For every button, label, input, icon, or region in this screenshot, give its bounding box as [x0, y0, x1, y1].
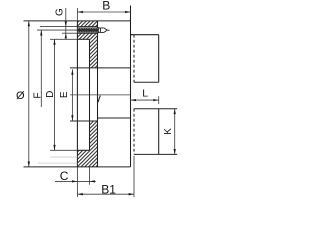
G upper extension — [40, 26, 77, 28]
chuck body bottom edge with K extension — [134, 153, 177, 155]
dim G line — [65, 8, 67, 39]
hidden spigot end upper (dashed) — [133, 35, 135, 83]
L right extension tick — [158, 96, 160, 104]
recess face and bore silhouette — [89, 39, 91, 150]
G lower extension — [62, 32, 77, 34]
flange front face with recess rim silhouette — [76, 21, 78, 167]
svg-text:F: F — [33, 92, 44, 98]
stud hole bottom edge — [77, 32, 97, 34]
hidden spigot end lower (dashed) — [133, 109, 135, 155]
F extension top (stud axis) — [37, 29, 77, 31]
svg-text:B1: B1 — [101, 183, 116, 197]
D extension lower — [50, 149, 77, 151]
dim K line — [174, 109, 176, 155]
hatch recess column upper — [90, 39, 98, 68]
chuck body right edge upper — [158, 35, 160, 83]
stud cone tip — [104, 28, 110, 33]
D extension upper — [50, 38, 77, 40]
dim D line — [54, 39, 56, 150]
stud hole top edge — [77, 26, 97, 28]
dim C line — [55, 180, 96, 182]
svg-text:E: E — [59, 91, 70, 98]
stud threaded shank — [77, 28, 98, 33]
hatch recess column lower — [90, 121, 98, 150]
dim B extension left — [76, 8, 78, 21]
faint bolt hole mirror line lower — [38, 162, 77, 164]
svg-text:B: B — [102, 0, 110, 13]
dim C extension right — [89, 167, 91, 185]
centerline break mark — [98, 96, 100, 103]
stud thread end — [97, 27, 99, 33]
centerline — [70, 94, 131, 96]
bore top edge line with E extension and chuck step top — [70, 67, 131, 69]
dim F line (top arrow, line fades mid-drawing as in source) — [40, 30, 42, 107]
chuck bore top line — [134, 81, 159, 83]
shared extension at front face bottom — [76, 167, 78, 197]
hatch band below stud hole — [77, 33, 97, 39]
flange back face — [97, 21, 99, 167]
stud point base — [100, 28, 104, 33]
dim L line — [131, 99, 159, 101]
dim B line — [77, 11, 130, 13]
svg-text:Ø: Ø — [16, 90, 25, 102]
faint bolt hole mirror line upper — [50, 156, 77, 158]
chuck bore bottom line with K extension — [134, 108, 177, 110]
svg-text:L: L — [142, 87, 148, 99]
svg-text:C: C — [60, 169, 69, 183]
dim dia line — [28, 21, 30, 167]
hatch rim bottom band — [77, 150, 97, 167]
svg-text:D: D — [45, 91, 56, 98]
svg-text:G: G — [54, 8, 65, 16]
chuck body right edge lower — [158, 109, 160, 155]
flange bottom OD edge with dia extension — [24, 166, 131, 168]
chuck front face — [130, 6, 132, 167]
chuck body top edge — [131, 34, 159, 36]
recess step upper — [77, 38, 89, 40]
stud thread texture lines — [78, 27, 99, 29]
recess step lower — [77, 149, 89, 151]
hatch rim top band — [77, 21, 97, 27]
flange top OD edge with dia extension — [24, 20, 131, 22]
stud neck — [98, 28, 100, 32]
chuck step bottom line — [98, 117, 131, 119]
dim B1 extension right — [133, 156, 135, 197]
dim B1 line — [77, 193, 134, 195]
svg-text:K: K — [163, 128, 174, 135]
bore bottom edge with E extension — [70, 120, 98, 122]
dim E line — [71, 69, 73, 120]
